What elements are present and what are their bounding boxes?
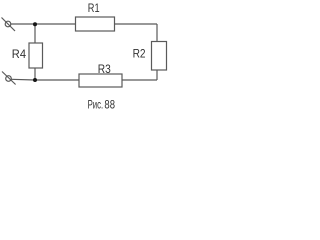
- wire bottom: corner to R3: [122, 79, 157, 81]
- terminal bottom-left: [2, 72, 16, 85]
- wire bottom: R3 to node B: [35, 79, 79, 81]
- wire top: terminal to node A: [11, 23, 35, 25]
- resistor R3: [79, 74, 122, 87]
- wire bottom: node B to terminal: [11, 78, 35, 81]
- svg-text:R4: R4: [12, 47, 26, 61]
- resistor R2: [152, 42, 167, 71]
- wire right: R2 to bottom-right corner: [156, 70, 158, 80]
- wire left branch: R4 to node B: [34, 68, 36, 80]
- svg-text:R2: R2: [133, 47, 146, 61]
- terminal top-left: [2, 18, 16, 32]
- svg-text:R1: R1: [88, 1, 100, 15]
- wire top: node A to R1: [35, 23, 76, 25]
- resistor R4: [29, 43, 43, 68]
- svg-text:88: 88: [104, 98, 115, 112]
- wire left branch: node A to R4: [34, 24, 36, 43]
- svg-text:Рис.: Рис.: [88, 98, 104, 112]
- resistor R1: [76, 17, 115, 31]
- svg-text:R3: R3: [98, 62, 111, 76]
- wire right: corner to R2: [156, 24, 158, 42]
- node A junction dot: [33, 22, 37, 26]
- node B junction dot: [33, 78, 37, 82]
- wire top: R1 to top-right corner: [115, 23, 158, 25]
